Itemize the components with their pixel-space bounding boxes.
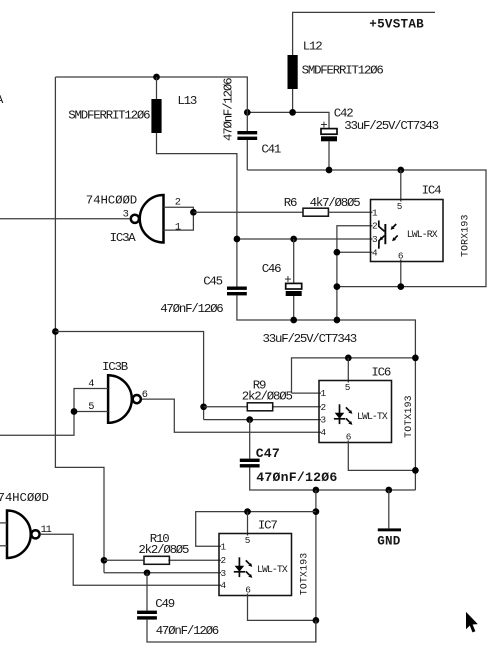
svg-text:47ØnF/12Ø6: 47ØnF/12Ø6 (256, 470, 337, 485)
junction bus gnd (385, 487, 392, 494)
gate IC3C 74HC00D (0, 491, 52, 558)
IC box IC4 (371, 184, 444, 262)
wire trunk to R9 column (55, 332, 203, 420)
gate IC3A 74HC00D (86, 193, 181, 245)
wire IC3B inputs (0, 389, 108, 436)
svg-text:TORX193: TORX193 (459, 214, 470, 257)
resistor R6 (284, 196, 360, 216)
wire IC3A to R6 (193, 211, 303, 213)
wire GND bus y170 (247, 170, 486, 287)
junction y358 x415 (412, 355, 419, 362)
wire IC7 pin5 (247, 512, 249, 536)
wire L12 bottom (292, 89, 294, 112)
junction R9 left (200, 403, 207, 410)
wire C49 bottom return (147, 620, 316, 642)
resistor R10 (138, 532, 189, 564)
svg-text:IC6: IC6 (371, 365, 390, 379)
wire IC4 pin2 pin4 gnd (337, 226, 373, 320)
svg-text:IC7: IC7 (258, 519, 277, 533)
resistor R9 (242, 379, 293, 411)
junction IC3A output node (190, 209, 197, 216)
svg-text:L13: L13 (177, 94, 196, 108)
svg-text:GND: GND (377, 535, 401, 549)
wire IC3B output to IC6 pin4 (142, 399, 321, 432)
wire R10 row (104, 559, 221, 561)
wire C47 bottom gnd bus y490 (250, 468, 416, 491)
junction IC7 pin6 x316 (313, 617, 320, 624)
svg-text:TOTX193: TOTX193 (403, 395, 414, 438)
wire +5VSTAB rail top (293, 12, 435, 55)
svg-text:2: 2 (321, 402, 326, 413)
junction C49 tap (144, 569, 151, 576)
wire IC6 pin6 (348, 441, 415, 471)
capacitor C42 polarized (320, 106, 438, 170)
inductor L12 (288, 39, 384, 89)
wire R9 row (204, 406, 321, 408)
capacitor C45 (160, 275, 247, 316)
ground symbol GND (377, 490, 401, 549)
LED symbol IC7 (234, 557, 253, 578)
svg-text:SMDFERRIT12Ø6: SMDFERRIT12Ø6 (68, 108, 150, 122)
IC box IC7 (219, 519, 292, 596)
svg-text:+: + (284, 273, 291, 287)
svg-text:R6: R6 (284, 196, 297, 210)
svg-text:47ØnF/12Ø6: 47ØnF/12Ø6 (160, 302, 223, 316)
svg-text:47ØnF/12Ø6: 47ØnF/12Ø6 (156, 624, 219, 638)
svg-text:2: 2 (221, 555, 226, 566)
svg-text:IC3B: IC3B (102, 360, 128, 374)
svg-text:2: 2 (372, 221, 377, 232)
wire IC4 pin6 (400, 260, 402, 287)
svg-text:2k2/Ø8Ø5: 2k2/Ø8Ø5 (242, 390, 293, 404)
junction IC3B input tie (71, 408, 78, 415)
junction pin3/x236 (234, 236, 241, 243)
junction IC4 pin5 top (397, 167, 404, 174)
junction gnd 286 (334, 283, 341, 290)
junction pin4 (334, 249, 341, 256)
cursor pointer (466, 612, 478, 633)
capacitor C49 (137, 573, 219, 638)
wire trunk left (55, 77, 104, 573)
svg-text:LWL-RX: LWL-RX (407, 229, 438, 240)
junction pin3/C46 (290, 236, 297, 243)
junction C42 bottom (326, 167, 333, 174)
junction IC7 pin5 (244, 508, 251, 515)
wire IC6 pin5 (347, 358, 349, 383)
junction C46 bottom (290, 317, 297, 324)
value TOTX193 vertical IC7 (298, 553, 309, 596)
value TORX193 vertical (459, 214, 470, 257)
svg-text:IC3A: IC3A (110, 231, 137, 245)
junction L12/+5V (289, 109, 296, 116)
wire +5V horizontal to C42 (247, 112, 329, 128)
svg-text:47ØnF/12Ø6: 47ØnF/12Ø6 (221, 78, 235, 141)
junction IC7 feed (313, 508, 320, 515)
wire IC3A output to left edge (0, 218, 130, 220)
junction bus x316 (313, 487, 320, 494)
svg-text:LWL-TX: LWL-TX (257, 564, 288, 575)
svg-text:C49: C49 (155, 597, 174, 611)
junction C47 tap (246, 416, 253, 423)
wire x316 down to IC7 area (315, 490, 317, 642)
junction C41 top tap (244, 109, 251, 116)
svg-text:+: + (320, 119, 327, 133)
wire IC7 pin3 row (104, 572, 221, 574)
wire R6 to IC4 pin1 (328, 211, 372, 213)
wire IC6 pin1 feed (292, 358, 416, 393)
svg-text:SMDFERRIT12Ø6: SMDFERRIT12Ø6 (302, 63, 384, 77)
junction IC6 pin5 (345, 355, 352, 362)
svg-text:33uF/25V/CT7343: 33uF/25V/CT7343 (344, 119, 438, 133)
wire IC4 pin5 (400, 170, 402, 202)
svg-text:TOTX193: TOTX193 (298, 553, 309, 596)
wire IC7 pin1 feed (196, 512, 316, 547)
wire IC7 pin6 (248, 594, 316, 621)
svg-text:C45: C45 (203, 275, 222, 289)
svg-text:74HCØØD: 74HCØØD (0, 491, 49, 505)
wire IC6 pin3 row (204, 419, 321, 421)
wire IC4 pin3 row (237, 238, 373, 240)
node A left edge (0, 93, 4, 107)
svg-text:IC4: IC4 (422, 184, 441, 198)
svg-text:C47: C47 (256, 446, 280, 461)
junction gnd line bus (334, 317, 341, 324)
svg-text:+5VSTAB: +5VSTAB (369, 18, 424, 32)
wire +5V top bus (55, 77, 247, 131)
junction L13 top (153, 74, 160, 81)
capacitor C46 polarized (262, 239, 357, 346)
svg-text:2k2/Ø8Ø5: 2k2/Ø8Ø5 (138, 543, 189, 557)
capacitor C47 (240, 420, 338, 485)
inductor L13 (68, 77, 197, 133)
svg-text:74HCØØD: 74HCØØD (86, 193, 137, 207)
svg-text:33uF/25V/CT7343: 33uF/25V/CT7343 (263, 332, 357, 346)
phototransistor symbol IC4 (379, 221, 398, 249)
svg-text:L12: L12 (303, 39, 322, 53)
wire IC3A inputs tie (164, 207, 194, 230)
IC box IC6 (319, 365, 392, 442)
svg-text:LWL-TX: LWL-TX (357, 411, 388, 422)
wire L13 bottom to vertical (157, 133, 237, 287)
LED symbol IC6 (334, 404, 353, 425)
value TOTX193 vertical IC6 (403, 395, 414, 438)
svg-text:4k7/Ø8Ø5: 4k7/Ø8Ø5 (310, 196, 361, 210)
gate IC3B 74HC00D (88, 360, 148, 423)
wire C45 bottom to gnd bus y320 (237, 295, 416, 490)
value C41 vertical (221, 78, 235, 141)
junction pin6 x415 (412, 467, 419, 474)
svg-text:C41: C41 (261, 143, 280, 157)
node +5VSTAB label (369, 18, 424, 32)
junction trunk IC3B tap (52, 328, 59, 335)
junction IC4 pin6 (397, 283, 404, 290)
capacitor C41 (237, 131, 280, 170)
junction R10 left (101, 557, 108, 564)
wire IC3C output to IC7 pin4 (40, 534, 221, 585)
svg-text:C46: C46 (262, 262, 281, 276)
